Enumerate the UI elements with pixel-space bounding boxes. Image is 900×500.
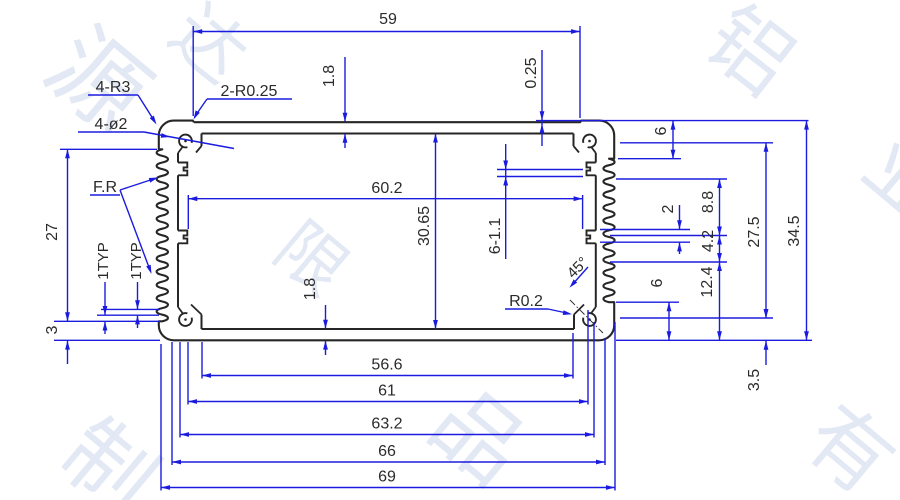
boss top-left bbox=[179, 135, 192, 148]
dim 3.5 bbox=[765, 341, 767, 365]
svg-text:56.6: 56.6 bbox=[371, 357, 402, 374]
svg-text:27.5: 27.5 bbox=[746, 216, 763, 247]
inner left face bbox=[177, 153, 179, 163]
dim 2 bbox=[600, 229, 690, 231]
svg-text:0.25: 0.25 bbox=[523, 57, 540, 88]
dim 1TYP first bbox=[97, 314, 159, 316]
inner top wall bbox=[202, 133, 574, 135]
inner bottom wall bbox=[202, 328, 575, 330]
boss top-right bbox=[583, 135, 596, 148]
svg-text:27: 27 bbox=[44, 223, 61, 241]
dim 63.2 bbox=[179, 342, 181, 438]
dim 1.8 bottom bbox=[325, 305, 327, 329]
dim 30.65 bbox=[435, 134, 437, 330]
dim 27.5 bbox=[620, 317, 773, 319]
svg-text:66: 66 bbox=[378, 443, 396, 460]
svg-text:34.5: 34.5 bbox=[786, 215, 803, 246]
svg-text:4-R3: 4-R3 bbox=[96, 79, 131, 96]
svg-text:63.2: 63.2 bbox=[371, 416, 402, 433]
right card-guide tooth upper bbox=[587, 163, 596, 176]
svg-text:69: 69 bbox=[378, 469, 396, 486]
svg-text:61: 61 bbox=[378, 383, 396, 400]
dim 27 bbox=[60, 148, 157, 150]
dim 12.4 bbox=[719, 262, 721, 340]
dim 1TYP second bbox=[101, 308, 159, 310]
right card-guide tooth lower bbox=[587, 231, 596, 244]
svg-text:6: 6 bbox=[649, 278, 666, 287]
dim 1.8 top bbox=[344, 57, 346, 122]
svg-text:1TYP: 1TYP bbox=[95, 242, 112, 280]
svg-text:12.4: 12.4 bbox=[699, 266, 716, 297]
dim 3 bbox=[54, 320, 160, 322]
dim 60.2 bbox=[187, 195, 189, 229]
svg-text:2-R0.25: 2-R0.25 bbox=[221, 83, 278, 100]
dim 61 bbox=[187, 342, 189, 405]
svg-text:F.R: F.R bbox=[93, 179, 117, 196]
dim 8.8 bbox=[616, 178, 727, 180]
boss 45deg centerline bbox=[570, 300, 603, 333]
profile outer contour bbox=[157, 121, 615, 341]
dim 6-1.1 bbox=[497, 169, 583, 171]
svg-text:60.2: 60.2 bbox=[371, 180, 402, 197]
svg-text:4-ø2: 4-ø2 bbox=[95, 116, 128, 133]
dim 66 bbox=[171, 342, 173, 465]
svg-text:4.2: 4.2 bbox=[700, 230, 717, 252]
svg-text:1TYP: 1TYP bbox=[128, 242, 145, 280]
left card-guide tooth lower bbox=[178, 231, 187, 244]
dim 4.2 bbox=[610, 235, 727, 237]
boss bottom-left bbox=[179, 313, 192, 326]
dim 56.6 bbox=[201, 342, 203, 379]
svg-text:8.8: 8.8 bbox=[700, 191, 717, 213]
svg-text:1.8: 1.8 bbox=[321, 65, 338, 87]
svg-text:6: 6 bbox=[653, 126, 670, 135]
inner right face bbox=[595, 153, 597, 163]
dim 6 top bbox=[618, 158, 681, 160]
dim 0.25 bbox=[541, 50, 543, 146]
dim 69 bbox=[160, 344, 162, 491]
extension 27.5 top bbox=[620, 142, 773, 144]
svg-text:R0.2: R0.2 bbox=[509, 293, 543, 310]
svg-text:30.65: 30.65 bbox=[416, 206, 433, 246]
svg-text:3: 3 bbox=[44, 325, 61, 334]
dim 34.5 bbox=[806, 121, 808, 341]
left card-guide tooth upper bbox=[178, 163, 187, 176]
dim 59 bbox=[192, 26, 194, 116]
svg-text:3.5: 3.5 bbox=[746, 369, 763, 391]
svg-text:2: 2 bbox=[660, 204, 677, 213]
boss bottom-right bbox=[583, 313, 596, 326]
svg-text:6-1.1: 6-1.1 bbox=[487, 218, 504, 255]
svg-text:59: 59 bbox=[379, 11, 397, 28]
svg-text:1.8: 1.8 bbox=[302, 278, 319, 300]
bottom right extension bbox=[616, 339, 812, 341]
top extension line bbox=[536, 120, 809, 122]
dim 6 bottom bbox=[616, 301, 679, 303]
